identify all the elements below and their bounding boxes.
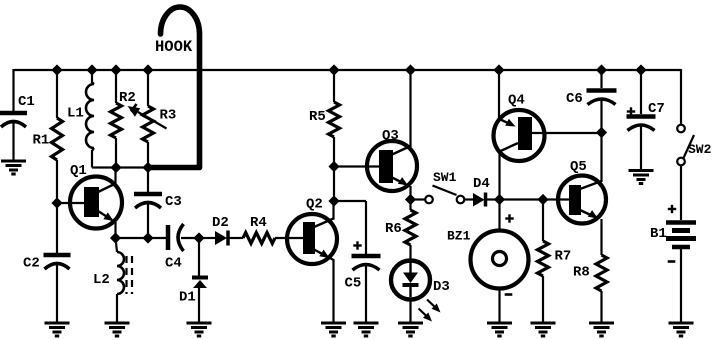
led arrows D3 xyxy=(427,300,436,309)
resistor R3 xyxy=(143,106,154,142)
node L1 top xyxy=(86,64,97,75)
svg-text:C7: C7 xyxy=(648,101,665,117)
ground C7 xyxy=(629,169,654,172)
svg-text:Q5: Q5 xyxy=(570,159,587,175)
svg-text:HOOK: HOOK xyxy=(155,38,193,56)
wire hook net xyxy=(92,166,150,168)
wire L2 top xyxy=(116,238,118,252)
ground R7 xyxy=(531,322,556,325)
svg-text:B1: B1 xyxy=(650,226,667,242)
resistor R4 xyxy=(243,233,275,244)
wire base Q3 xyxy=(334,165,380,167)
wire Q2 emitter xyxy=(330,258,334,260)
ground C5 xyxy=(354,322,379,325)
svg-text:C1: C1 xyxy=(18,94,35,110)
ground D3 xyxy=(398,322,423,325)
capacitor C4 xyxy=(166,225,171,250)
wire to SW1 xyxy=(411,198,426,200)
wire BZ1 to ground xyxy=(498,289,500,324)
wire SW1 to D4 xyxy=(465,198,474,200)
node R7 top xyxy=(537,194,548,205)
wire C6 bottom xyxy=(600,99,602,133)
battery B1 xyxy=(668,208,676,210)
ground L2 xyxy=(105,322,130,325)
ground C1 xyxy=(1,160,26,163)
node Q2 collector xyxy=(328,195,339,206)
buzzer BZ1 xyxy=(505,217,513,219)
switch SW2 xyxy=(677,125,685,133)
wire Q3 emitter riser xyxy=(409,186,411,200)
wire Q2 collector riser xyxy=(332,201,334,220)
wire C3 bottom xyxy=(147,203,149,238)
wire D3 to ground xyxy=(409,300,411,324)
node R2 bottom xyxy=(110,162,121,173)
wire C1 drop xyxy=(12,69,14,111)
node R5 bottom xyxy=(328,161,339,172)
wire R3 top xyxy=(147,70,149,106)
wire R5 node down xyxy=(333,167,335,202)
resistor R1 xyxy=(52,118,63,160)
ground BZ1 xyxy=(487,322,512,325)
ground D1 xyxy=(187,322,212,325)
svg-text:R2: R2 xyxy=(119,90,136,106)
resistor R6 xyxy=(405,210,416,245)
node R2 top xyxy=(110,64,121,75)
wire Q4 base xyxy=(532,132,602,134)
ground C2 xyxy=(45,322,70,325)
svg-text:R6: R6 xyxy=(385,221,402,237)
capacitor C2 xyxy=(44,253,71,258)
wire D1 top xyxy=(198,238,200,277)
wire R7 top xyxy=(542,200,544,242)
wire R8 to ground xyxy=(600,291,602,323)
diode D4 xyxy=(473,193,485,207)
svg-text:R8: R8 xyxy=(573,265,590,281)
wire right bus corner xyxy=(680,69,682,125)
ground B1 xyxy=(669,322,694,325)
svg-text:L1: L1 xyxy=(67,106,84,122)
capacitor C7 xyxy=(627,110,635,112)
svg-text:C3: C3 xyxy=(165,194,182,210)
svg-text:R3: R3 xyxy=(160,108,177,124)
wire top supply bus xyxy=(14,69,681,71)
transistor Q5 xyxy=(558,176,606,224)
node buzzer xyxy=(494,194,505,205)
transistor Q1 xyxy=(70,177,122,229)
wire R6 to D3 xyxy=(409,245,411,261)
capacitor C1 xyxy=(0,111,27,116)
node C7 top xyxy=(635,64,646,75)
wire R2 top xyxy=(115,70,117,103)
svg-text:Q4: Q4 xyxy=(508,93,525,109)
svg-text:R4: R4 xyxy=(250,215,267,231)
svg-text:R5: R5 xyxy=(309,109,326,125)
transistor Q3 xyxy=(367,141,417,191)
node Q3 collector top xyxy=(405,64,416,75)
trimmer arrow R2 xyxy=(131,104,137,112)
wire C7 to ground xyxy=(640,125,642,171)
wire D2 to R4 xyxy=(230,237,244,239)
wire R3 bottom xyxy=(147,142,149,168)
node Q1 emitter xyxy=(110,232,121,243)
wire Q4 emitter riser xyxy=(498,69,500,120)
diode D2 xyxy=(215,231,227,245)
node R5 top xyxy=(328,64,339,75)
led D3 xyxy=(391,261,430,300)
capacitor C6 xyxy=(587,88,617,93)
wire R5 top xyxy=(333,70,335,102)
resistor R8 xyxy=(596,255,607,291)
inductor L1 xyxy=(86,84,94,148)
node R1 top xyxy=(51,64,62,75)
node Q4 base xyxy=(596,127,607,138)
wire B1 to ground xyxy=(680,249,682,323)
wire Q4 collector riser xyxy=(498,151,500,200)
svg-text:D4: D4 xyxy=(473,176,490,192)
svg-text:C5: C5 xyxy=(345,276,362,292)
wire R1 bottom xyxy=(56,160,58,203)
switch SW1 xyxy=(425,196,433,204)
node C3 bottom xyxy=(142,232,153,243)
wire Q5 emitter riser xyxy=(600,219,602,255)
wire Q5 collector riser xyxy=(600,133,602,183)
transistor Q4 xyxy=(494,110,545,161)
wire node to BZ1 xyxy=(498,200,500,232)
wire L2 bottom xyxy=(116,294,118,323)
wire node to Q5 base xyxy=(500,198,570,200)
node Q1 base xyxy=(51,197,62,208)
wire C3 top xyxy=(147,168,149,193)
capacitor C3 xyxy=(134,192,162,197)
wire R1 top xyxy=(56,70,58,118)
node R3 bottom xyxy=(142,162,153,173)
node D1 top xyxy=(193,232,204,243)
svg-text:BZ1: BZ1 xyxy=(447,229,471,244)
wire D1 to ground xyxy=(198,288,200,323)
wire C2 to ground xyxy=(56,263,58,323)
svg-text:R7: R7 xyxy=(555,249,572,265)
node R3 top xyxy=(142,64,153,75)
svg-text:Q1: Q1 xyxy=(70,163,87,179)
resistor R2 xyxy=(111,103,122,138)
svg-text:C4: C4 xyxy=(165,256,182,272)
svg-text:C2: C2 xyxy=(23,256,40,272)
ground R8 xyxy=(589,322,614,325)
diode D1 xyxy=(192,276,208,280)
wire R6 top xyxy=(409,200,411,211)
node Q3 emitter xyxy=(405,194,416,205)
wire Q1 collector riser xyxy=(114,168,116,185)
wire node to C5 xyxy=(334,200,366,202)
wire R4 to Q2 xyxy=(275,237,303,239)
node Q4 top xyxy=(493,64,504,75)
wire D4 to node xyxy=(487,198,500,200)
wire R7 to ground xyxy=(542,276,544,323)
svg-text:L2: L2 xyxy=(93,272,110,288)
svg-text:R1: R1 xyxy=(33,133,50,149)
resistor R7 xyxy=(538,241,549,276)
svg-text:C6: C6 xyxy=(566,91,583,107)
arrow R3 xyxy=(138,112,167,129)
wire Q3 collector riser xyxy=(409,70,411,147)
svg-text:SW1: SW1 xyxy=(433,170,457,185)
wire C4 to node xyxy=(181,237,199,239)
core L2 xyxy=(125,256,127,294)
svg-text:Q2: Q2 xyxy=(306,197,323,213)
resistor R5 xyxy=(329,102,340,137)
wire C2 drop xyxy=(56,203,58,255)
wire Q1 emitter riser xyxy=(114,222,116,238)
inductor L2 xyxy=(117,252,124,294)
wire SW2 to B1 xyxy=(680,166,682,221)
wire C7 top xyxy=(640,70,642,114)
svg-text:D1: D1 xyxy=(179,290,196,306)
transistor Q2 xyxy=(287,214,337,264)
svg-text:D3: D3 xyxy=(433,279,450,295)
ground Q2 emitter xyxy=(321,322,346,325)
wire L1 bottom xyxy=(92,148,94,151)
wire C5 to ground xyxy=(365,264,367,323)
wire C1 to ground xyxy=(12,122,14,161)
svg-text:Q3: Q3 xyxy=(382,128,399,144)
wire R2 bottom xyxy=(115,138,117,168)
wire R5 bottom xyxy=(333,137,335,167)
capacitor C5 xyxy=(353,244,361,246)
wire C6 top xyxy=(600,70,602,88)
wire node to D2 xyxy=(199,237,215,239)
svg-text:D2: D2 xyxy=(212,215,229,231)
wire L1 top xyxy=(91,70,93,83)
node C6 top xyxy=(596,64,607,75)
wire emitter net xyxy=(116,237,167,239)
svg-text:SW2: SW2 xyxy=(688,142,712,157)
wire base Q1 xyxy=(57,202,86,204)
hook wire xyxy=(150,7,200,168)
